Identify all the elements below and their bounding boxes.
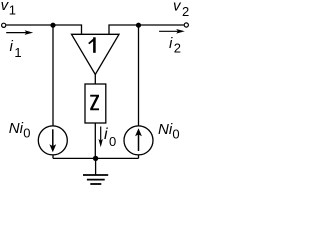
svg-text:Ni: Ni — [9, 120, 24, 137]
svg-text:Ni: Ni — [158, 121, 173, 138]
svg-text:1: 1 — [14, 45, 21, 60]
svg-text:0: 0 — [109, 134, 116, 149]
svg-text:2: 2 — [174, 41, 181, 56]
svg-text:i: i — [104, 126, 108, 143]
svg-text:0: 0 — [23, 126, 30, 141]
svg-text:2: 2 — [182, 4, 189, 19]
svg-text:0: 0 — [172, 127, 179, 142]
svg-text:1: 1 — [9, 2, 16, 17]
